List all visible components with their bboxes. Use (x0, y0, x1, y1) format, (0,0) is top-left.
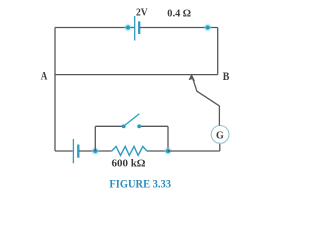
wire: top side, left segment from top-left corner to cell (55, 27, 134, 29)
wire: bottom side from right junction to bottom-right corner (168, 150, 220, 152)
arrowhead: jockey contact pointing at wire AB (189, 74, 196, 82)
wire: potentiometer wire A-B (55, 74, 218, 76)
wire: bypass branch left vertical (94, 126, 96, 151)
svg-text:600 kΩ: 600 kΩ (112, 159, 146, 170)
wire: bypass branch top-left segment to key (95, 125, 122, 127)
galvanometer G (211, 125, 229, 143)
svg-text:2V: 2V (136, 7, 148, 18)
battery cell 2V (long positive plate + short thick negative plate) (135, 16, 140, 41)
svg-text:A: A (41, 69, 48, 82)
svg-text:FIGURE 3.33: FIGURE 3.33 (109, 177, 171, 190)
wire: bottom side from cell to left junction (79, 150, 112, 152)
svg-text:0.4 Ω: 0.4 Ω (167, 9, 191, 20)
wire: bottom-right vertical up to galvanometer (219, 144, 221, 151)
wire: bypass branch top-right segment from key (141, 125, 168, 127)
wire: bottom side from resistor to right junction (147, 150, 168, 152)
svg-text:B: B (223, 70, 230, 83)
wire: vertical from galvanometer up to jockey bend (218, 106, 220, 126)
battery driver cell (long plate + short thick plate) (73, 139, 78, 163)
wire: jockey lead with two bends (192, 77, 219, 106)
junction dot: left node of key/resistor parallel pair (92, 148, 98, 154)
svg-text:G: G (216, 130, 224, 141)
wire: left vertical from top-left corner down to bottom-left corner (54, 28, 56, 152)
junction dot: left of 2V cell (125, 25, 131, 31)
wire: bypass branch right vertical (167, 126, 169, 151)
resistor 600 kOhm (zigzag) (112, 146, 147, 155)
switch key (open) (122, 114, 141, 128)
junction dot: right end of top wire (205, 25, 211, 31)
junction dot: right node of key/resistor parallel pair (165, 148, 171, 154)
wire: top side, right segment from cell to top-right corner (140, 27, 218, 29)
wire: bottom side, left segment to driver cell (55, 150, 73, 152)
wire: right vertical from top-right corner down to node B (217, 28, 219, 75)
